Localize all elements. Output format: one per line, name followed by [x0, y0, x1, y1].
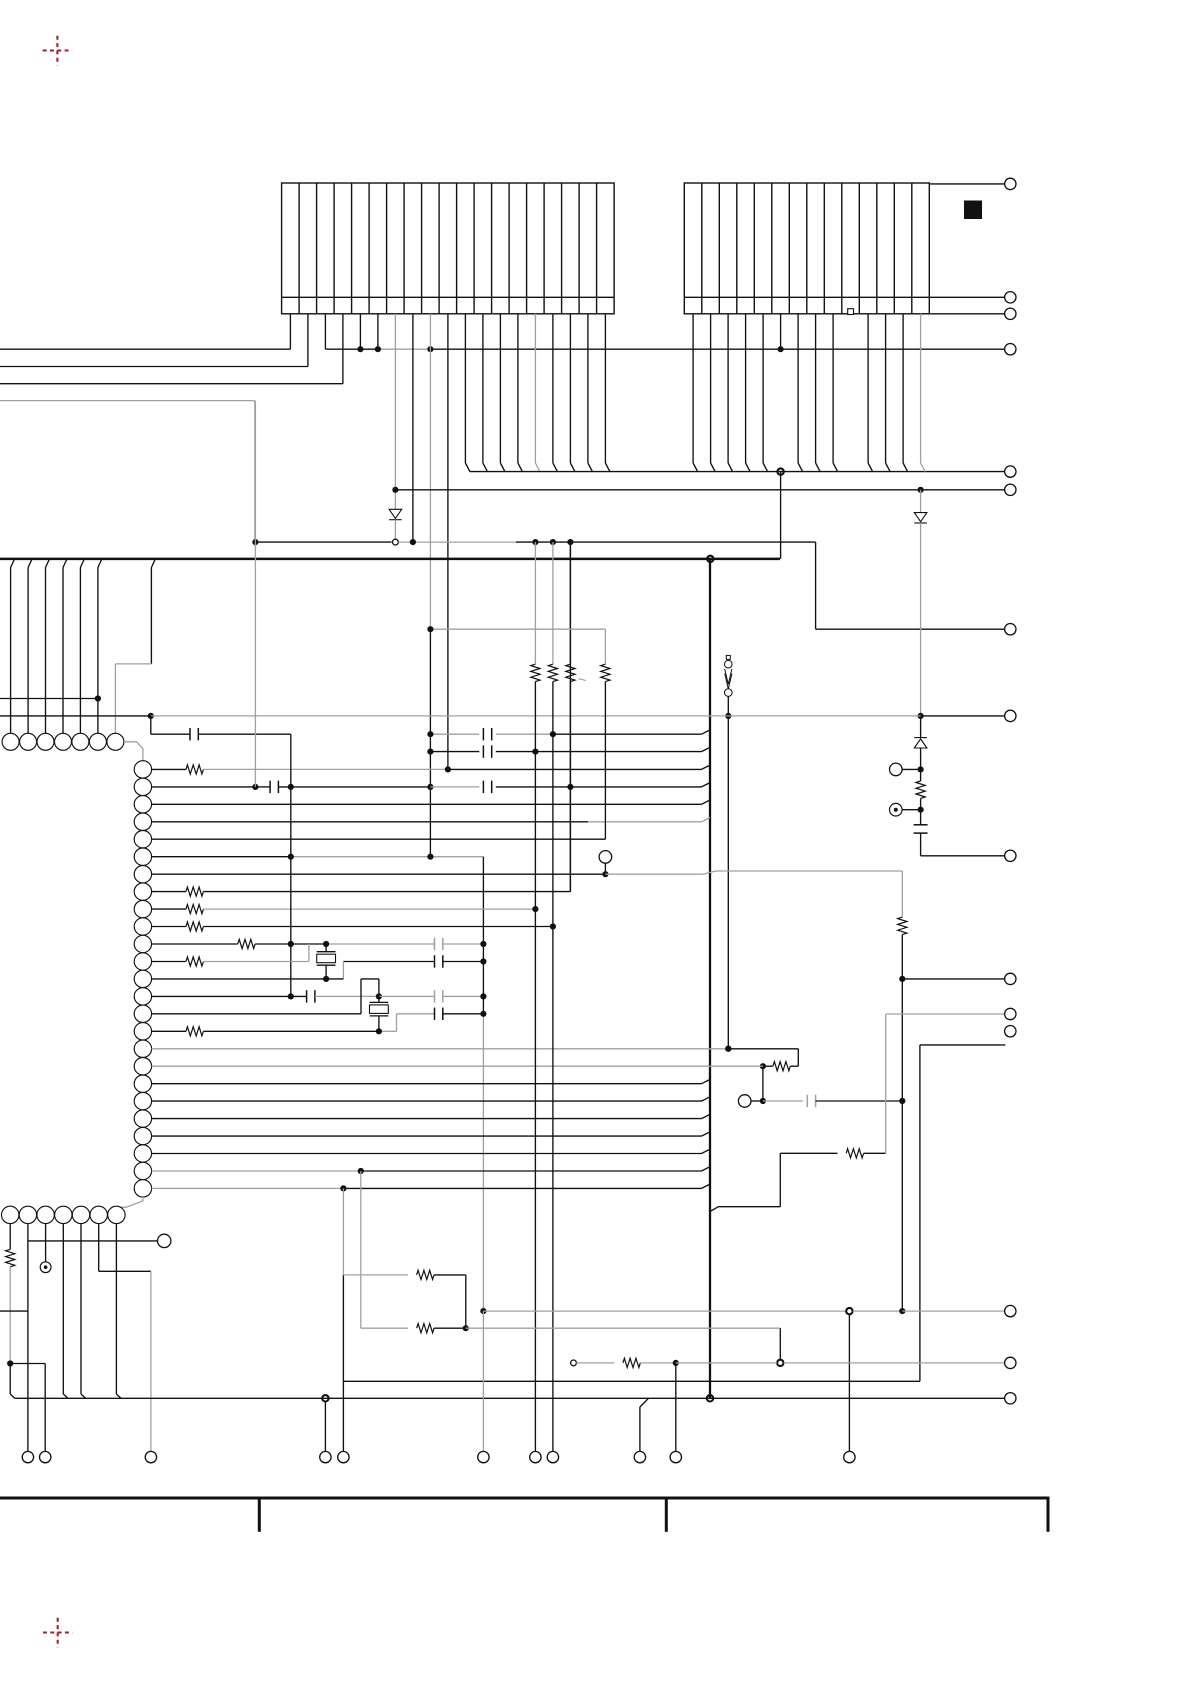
wire IC pin L2: [152, 786, 256, 788]
wire (branch to left): [0, 1310, 28, 1312]
junction (circled): [322, 1395, 328, 1401]
wire IC pin L19: [152, 1083, 702, 1085]
marker (filled square): [964, 201, 982, 220]
node junction: [918, 766, 924, 772]
node junction: [7, 1360, 13, 1366]
wire: [929, 313, 1004, 315]
terminal circle: [22, 1451, 33, 1462]
node junction: [725, 1046, 731, 1052]
wire IC pin L20: [152, 1100, 702, 1102]
wire: [255, 943, 326, 945]
junction (circled): [846, 1308, 852, 1314]
wire IC pin L13: [152, 978, 344, 980]
node junction: [288, 993, 294, 999]
junction (circled) harness: [777, 468, 783, 474]
pin 1 marker (small open square) on CN102: [848, 309, 854, 315]
wire IC pin L18: [152, 1065, 763, 1067]
wire (jog): [640, 1398, 649, 1407]
wire CN101 pin7: [394, 314, 396, 510]
wire: [676, 1362, 777, 1364]
resistor R117 (vertical): [6, 1249, 15, 1266]
IC U101 pad top7: [107, 733, 124, 750]
wire CN101 pin19: [604, 314, 606, 463]
terminal circle: [1005, 178, 1016, 189]
IC U101 pad L11: [134, 935, 151, 952]
wire CN101 pin11: [464, 314, 466, 463]
terminal circle (open): [158, 1234, 171, 1247]
wire: [728, 1048, 798, 1050]
wire IC pad B6: [98, 1224, 100, 1272]
wire: [430, 751, 479, 753]
registration mark (bottom-left): [43, 1618, 72, 1647]
IC U101 pad B5: [72, 1206, 89, 1223]
wire (gray riser): [379, 1030, 397, 1032]
connector CN102 (right 14-pin header): [684, 183, 929, 314]
wire: [434, 1327, 466, 1329]
wire: [779, 1328, 781, 1359]
wire (gray branch): [430, 628, 605, 630]
node junction: [760, 1063, 766, 1069]
resistor R109: [186, 1027, 203, 1036]
wire (to terminal): [902, 978, 1004, 980]
wire IC pin L5: [152, 838, 606, 840]
wire: [762, 1066, 764, 1101]
node junction: [252, 784, 258, 790]
node junction: [778, 346, 784, 352]
node junction: [567, 784, 573, 790]
resistor R101 (vertical): [920, 769, 922, 781]
node junction: [357, 346, 363, 352]
wire CN102 pin13: [902, 314, 904, 463]
wire: [203, 926, 553, 928]
wire IC top pin2: [28, 559, 32, 568]
wire (pad link): [124, 742, 143, 761]
terminal circle: [530, 1451, 541, 1462]
IC U101 pad L17: [134, 1040, 151, 1057]
node junction: [480, 941, 486, 947]
wire IC pin L17: [152, 1048, 729, 1050]
wire (to terminal): [921, 855, 1005, 857]
terminal circle: [338, 1451, 349, 1462]
capacitor C104: [482, 745, 484, 757]
wire: [150, 716, 152, 734]
wire IC pin L25: [152, 1187, 344, 1189]
terminal circle: [478, 1451, 489, 1462]
wire CN101 pin9 (gray feed column): [429, 314, 431, 629]
IC U101 pad L1: [134, 761, 151, 778]
terminal circle: [1005, 1357, 1016, 1368]
wire CN102 pin2: [710, 314, 712, 463]
IC U101 pad L18: [134, 1058, 151, 1075]
IC U101 pad B7: [108, 1206, 125, 1223]
terminal circle (open): [890, 763, 903, 776]
wire: [343, 961, 434, 963]
wire (bus branch): [710, 1207, 718, 1212]
wire (drop col): [569, 542, 571, 664]
node junction: [760, 1098, 766, 1104]
wire IC pin L3: [152, 803, 702, 805]
IC U101 pad L4: [134, 813, 151, 830]
terminal circle: [1005, 344, 1016, 355]
wire: [605, 873, 703, 875]
wire: [496, 751, 702, 753]
frame tick: [1047, 1498, 1050, 1532]
node junction: [550, 923, 556, 929]
wire: [361, 1327, 408, 1329]
wire: [675, 1363, 677, 1452]
wire IC pad B2: [27, 1224, 29, 1452]
IC U101 pad L19: [134, 1075, 151, 1092]
wire CN102 pin5: [762, 314, 764, 463]
wire CN102 pin3: [727, 314, 729, 463]
wire IC top pin1: [11, 559, 15, 568]
node junction: [148, 713, 154, 719]
IC U101 pad B3: [37, 1206, 54, 1223]
wire IC pad B7: [115, 1224, 117, 1394]
capacitor C102: [189, 728, 191, 740]
capacitor C106: [482, 781, 484, 793]
wire: [902, 809, 921, 811]
wire (gray feed col): [254, 401, 256, 787]
node junction: [288, 784, 294, 790]
wire IC pin L4: [152, 821, 588, 823]
terminal circle: [40, 1451, 51, 1462]
capacitor C112: [806, 1095, 808, 1107]
terminal circle: [1005, 466, 1016, 477]
resistor R112 (vertical): [601, 664, 610, 681]
wire: [853, 1310, 903, 1312]
wire IC pin L11: [152, 943, 238, 945]
wire: [430, 786, 479, 788]
wire (col): [342, 1188, 344, 1275]
terminal circle (open small): [571, 1360, 577, 1366]
wire: [483, 1310, 846, 1312]
wire: [496, 786, 702, 788]
IC U101 pad L23: [134, 1145, 151, 1162]
wire: [326, 943, 434, 945]
wire IC top pin4: [63, 559, 67, 568]
wire: [496, 733, 553, 735]
wire: [398, 541, 516, 543]
wire (left net): [0, 715, 151, 717]
wire: [291, 995, 307, 997]
ground bus (bottom): [15, 1397, 1005, 1399]
wire: [604, 863, 606, 874]
node junction: [376, 1028, 382, 1034]
terminal circle: [634, 1451, 645, 1462]
wire: [902, 768, 921, 770]
wire IC pad B1: [9, 1224, 11, 1250]
resistor R110: [773, 1062, 790, 1071]
wire: [751, 1100, 763, 1102]
node junction: [410, 539, 416, 545]
node junction: [323, 941, 329, 947]
wire: [151, 733, 190, 735]
IC U101 pad B6: [90, 1206, 107, 1223]
wire (step from rail): [151, 559, 155, 568]
wire CN102 pin7: [797, 314, 799, 463]
wire: [848, 1315, 850, 1452]
wire: [343, 1274, 408, 1276]
resistor R115: [417, 1324, 434, 1333]
node junction: [899, 976, 905, 982]
wire IC pin L12: [152, 961, 186, 963]
wire (drop col upper): [482, 857, 484, 1014]
wire (net to terminal): [395, 489, 1004, 491]
node junction: [427, 749, 433, 755]
wire (net A to terminal): [325, 348, 378, 350]
terminal circle: [1005, 1008, 1016, 1019]
node junction: [95, 695, 101, 701]
wire: [255, 786, 270, 788]
node junction: [567, 539, 573, 545]
node junction: [376, 993, 382, 999]
junction (circled): [777, 1360, 783, 1366]
wire CN102 pin14: [920, 314, 922, 463]
wire: [920, 716, 922, 738]
wire (branch): [28, 1240, 158, 1242]
wire CN102 pin8: [815, 314, 817, 463]
wire CN102 pin4: [745, 314, 747, 463]
node junction: [725, 1046, 731, 1052]
resistor R104: [186, 887, 203, 896]
wire IC top pin5: [80, 559, 84, 568]
arrester SG101: [725, 655, 733, 696]
node junction: [480, 958, 486, 964]
IC U101 pad L12: [134, 953, 151, 970]
IC U101 pad L25: [134, 1180, 151, 1197]
power rail (heavy): [0, 558, 780, 561]
wire IC pin L6: [152, 856, 291, 858]
wire: [901, 935, 903, 1312]
resistor R114: [417, 1270, 434, 1279]
wire IC pin L21: [152, 1118, 702, 1120]
wire CN101 pin8: [412, 314, 414, 542]
IC U101 pad top2: [20, 733, 37, 750]
resistor R106: [186, 922, 203, 931]
wire: [203, 891, 570, 893]
wire IC pin L7: [152, 873, 606, 875]
wire: [430, 733, 479, 735]
terminal circle (unconnected): [1005, 1026, 1016, 1037]
wire IC pin L8: [152, 891, 186, 893]
wire IC pin L23: [152, 1153, 702, 1155]
node junction: [340, 1185, 346, 1191]
terminal circle: [145, 1451, 156, 1462]
wire: [448, 768, 702, 770]
wire (xtal col): [290, 734, 292, 996]
capacitor C108: [434, 955, 436, 967]
terminal circle: [670, 1451, 681, 1462]
terminal circle: [844, 1451, 855, 1462]
resistor R116: [623, 1358, 640, 1367]
wire: [576, 1362, 614, 1364]
IC U101 pad B4: [55, 1206, 72, 1223]
IC U101 pad L6: [134, 848, 151, 865]
node junction: [427, 731, 433, 737]
wire IC pin L9: [152, 908, 186, 910]
wire: [466, 1327, 781, 1329]
wire IC pin L14: [152, 995, 291, 997]
node junction: [445, 766, 451, 772]
node junction: [899, 1098, 905, 1104]
wire: [443, 1013, 484, 1015]
wire: [10, 1363, 45, 1365]
node junction: [463, 1325, 469, 1331]
wire: [763, 1065, 773, 1067]
IC U101 pad L3: [134, 796, 151, 813]
wire: [815, 542, 817, 629]
capacitor C107: [434, 938, 436, 950]
terminal circle: [1005, 1305, 1016, 1316]
resistor R108: [186, 957, 203, 966]
node junction: [725, 713, 731, 719]
bus line vertical: [709, 559, 711, 1398]
IC U101 pad L22: [134, 1127, 151, 1144]
terminal circle: [1005, 292, 1016, 303]
terminal circle (open): [599, 851, 612, 864]
wire CN101 pin15: [534, 314, 536, 463]
wire: [553, 733, 702, 735]
wire CN101 pin13: [499, 314, 501, 463]
terminal circle: [320, 1451, 331, 1462]
capacitor C109: [306, 990, 308, 1002]
IC U101 pad top5: [72, 733, 89, 750]
terminal circle: [1005, 624, 1016, 635]
frame line (bottom): [0, 1497, 1050, 1500]
wire: [727, 716, 729, 1049]
terminal circle: [1005, 850, 1016, 861]
wire IC pin L1: [152, 768, 186, 770]
wire CN101 pin18: [587, 314, 589, 463]
node junction: [918, 713, 924, 719]
wire: [920, 748, 922, 769]
IC U101 pad L24: [134, 1162, 151, 1179]
wire CN102 pin11: [867, 314, 869, 463]
wire: [901, 871, 903, 917]
IC U101 pad B2: [19, 1206, 36, 1223]
wire: [255, 541, 391, 543]
wire CN101 pin10: [447, 314, 449, 770]
wire (drop col): [534, 542, 536, 664]
wire: [780, 472, 782, 559]
wire: [763, 1100, 803, 1102]
frame tick: [665, 1498, 668, 1532]
wire (gray feed from left): [0, 400, 255, 402]
wire: [640, 1362, 676, 1364]
wire: [920, 1044, 1005, 1046]
IC U101 pad top1: [2, 733, 19, 750]
wire (pad link bottom): [120, 1197, 143, 1207]
wire CN101 pin14: [517, 314, 519, 463]
node junction: [532, 749, 538, 755]
wire CN102 pin9: [832, 314, 834, 463]
wire IC top pin3: [46, 559, 50, 568]
wire: [443, 943, 484, 945]
IC U101 pad top6: [89, 733, 106, 750]
IC U101 pad L21: [134, 1110, 151, 1127]
wire: [784, 1362, 1005, 1364]
wire (long gray net): [151, 715, 921, 717]
wire (gray col): [885, 1014, 887, 1153]
wire CN101 pin5: [359, 314, 361, 349]
wire: [434, 1274, 466, 1276]
wire (left net): [0, 698, 98, 700]
IC U101 pad L16: [134, 1023, 151, 1040]
wire CN101 pin2: [307, 314, 309, 367]
wire: [203, 908, 535, 910]
wire CN102 pin12: [885, 314, 887, 463]
node junction: [899, 1308, 905, 1314]
wire: [379, 995, 435, 997]
wire: [9, 1267, 11, 1364]
crystal X102: [370, 1001, 389, 1003]
wire CN101 pin4: [342, 314, 344, 384]
resistor R (vertical) x=552.9: [548, 664, 557, 681]
value mark: [579, 679, 587, 681]
terminal circle: [1005, 973, 1016, 984]
node junction: [550, 539, 556, 545]
wire IC top pin6: [98, 559, 102, 568]
wire CN102 pin6: [780, 314, 782, 349]
wire IC pin L10: [152, 926, 186, 928]
wire: [203, 961, 309, 963]
wire (drop col lower): [482, 1014, 484, 1311]
wire IC pin L16: [152, 1030, 186, 1032]
crystal X101: [317, 951, 336, 953]
wire (col): [482, 1311, 484, 1451]
node junction: [375, 346, 381, 352]
node junction: [480, 1011, 486, 1017]
node junction: [427, 626, 433, 632]
wire CN101 pin16: [552, 314, 554, 463]
wire (harness trunk to terminal): [470, 471, 1005, 473]
wire: [929, 183, 1004, 185]
test point (circled dot): [40, 1262, 51, 1273]
wire: [516, 541, 816, 543]
wire: [198, 733, 290, 735]
wire: [343, 1380, 920, 1382]
IC U101 pad top4: [55, 733, 72, 750]
node junction: [532, 539, 538, 545]
node junction: [550, 731, 556, 737]
node junction: [427, 346, 433, 352]
wire: [443, 995, 484, 997]
wire: [443, 961, 484, 963]
test point (circled dot): [890, 803, 903, 816]
capacitor C110: [434, 990, 436, 1002]
registration mark (top-left): [43, 36, 72, 65]
diode D103: [914, 738, 927, 748]
wire (col): [360, 1171, 362, 1328]
node junction: [480, 1308, 486, 1314]
node junction: [918, 807, 924, 813]
capacitor C103: [482, 728, 484, 740]
resistor R102: [186, 765, 203, 774]
node junction: [427, 784, 433, 790]
wire: [864, 1152, 886, 1154]
wire IC pad B4: [62, 1224, 64, 1394]
IC U101 pad top3: [37, 733, 54, 750]
wire CN101 pin17: [569, 314, 571, 463]
resistor R113: [846, 1149, 863, 1158]
node junction: [288, 941, 294, 947]
node junction: [358, 1168, 364, 1174]
wire: [9, 1364, 11, 1395]
capacitor C101 (vertical): [914, 824, 928, 826]
resistor R (vertical) x=535.4: [531, 664, 540, 681]
resistor R107: [238, 939, 255, 948]
